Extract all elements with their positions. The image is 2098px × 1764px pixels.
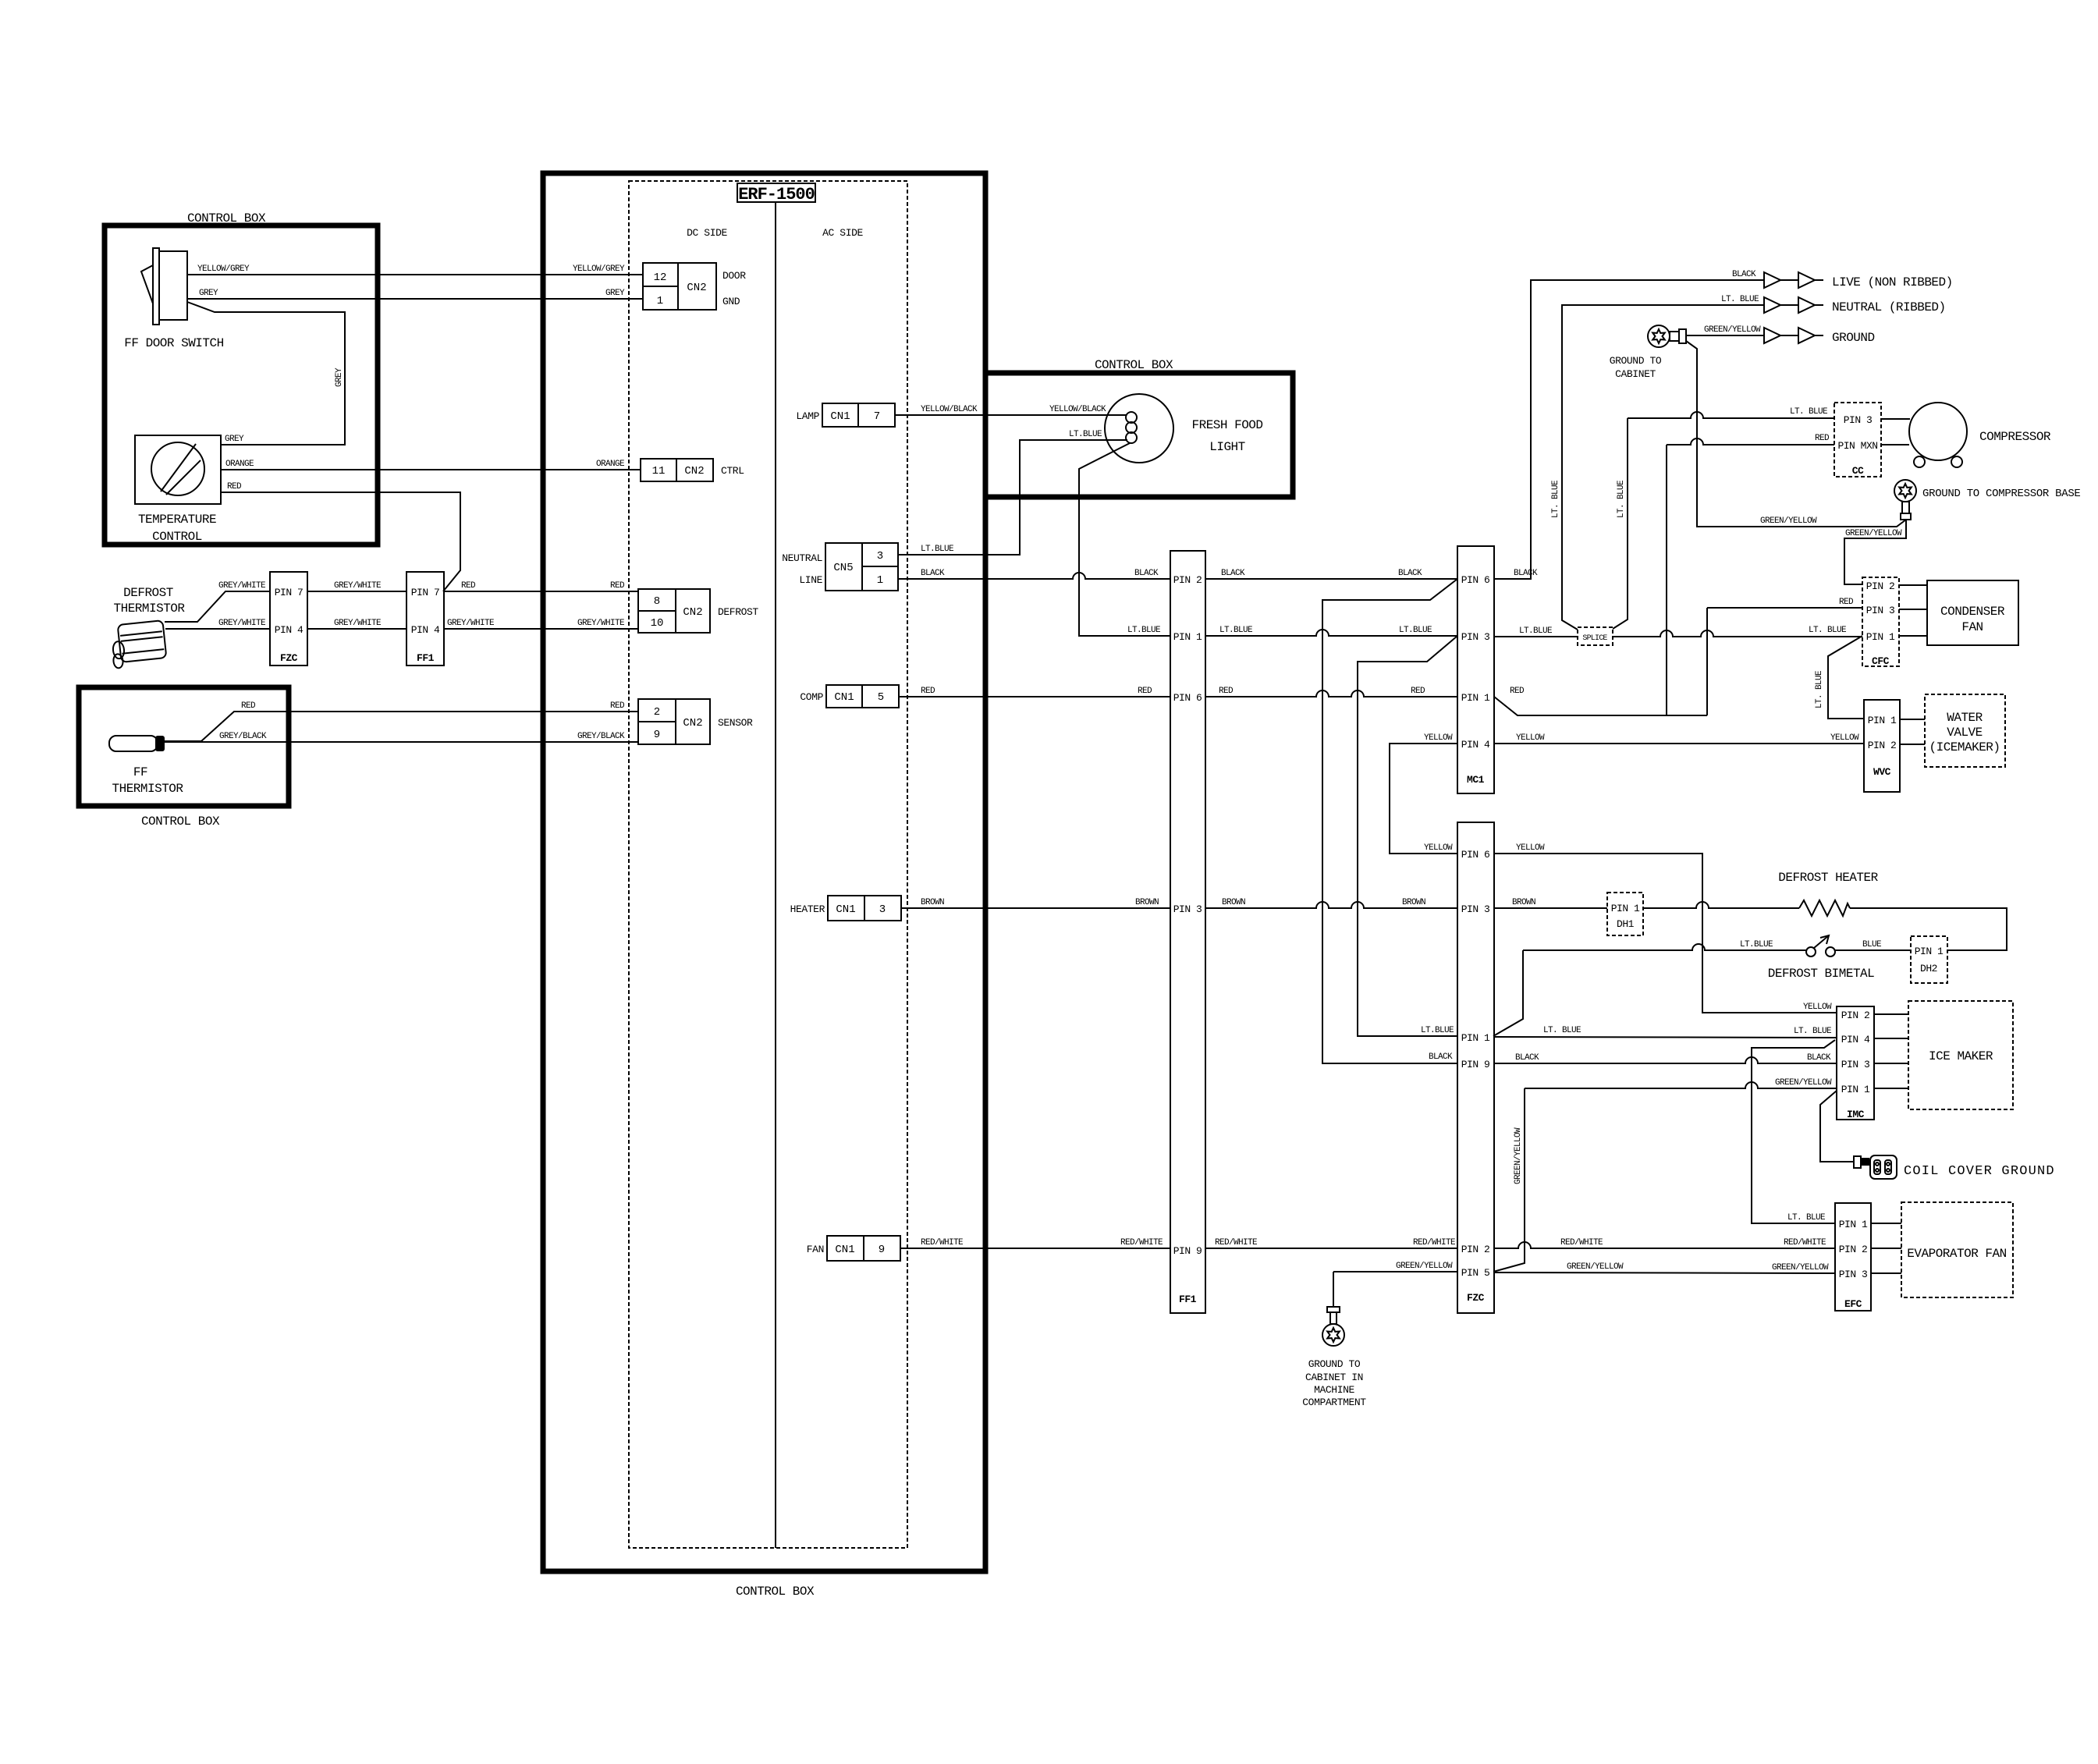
svg-text:RED: RED bbox=[1411, 687, 1425, 696]
wire LT.BLUE MC1 pin 3 to FZC pin 1 bbox=[1358, 636, 1457, 1036]
svg-text:PIN 9: PIN 9 bbox=[1461, 1059, 1490, 1070]
svg-text:BROWN: BROWN bbox=[1512, 898, 1535, 907]
connector FZC (main column) bbox=[1457, 822, 1494, 1313]
svg-text:LT. BLUE: LT. BLUE bbox=[1617, 480, 1626, 518]
defrost bimetal S1 bbox=[1768, 935, 1875, 981]
svg-text:MC1: MC1 bbox=[1467, 774, 1485, 786]
svg-text:GREY: GREY bbox=[199, 289, 218, 298]
water valve (icemaker) bbox=[1900, 694, 2005, 767]
svg-text:TEMPERATURE: TEMPERATURE bbox=[138, 513, 216, 527]
svg-text:WVC: WVC bbox=[1873, 766, 1891, 778]
svg-text:YELLOW: YELLOW bbox=[1424, 843, 1453, 853]
svg-text:PIN 1: PIN 1 bbox=[1461, 1032, 1490, 1044]
svg-text:BLACK: BLACK bbox=[1732, 270, 1756, 279]
compressor M1 bbox=[1881, 403, 2051, 467]
svg-text:CN2: CN2 bbox=[687, 282, 706, 294]
wire GREY/WHITE defrost thermistor to FZC pin 4 bbox=[165, 619, 270, 629]
control box (fresh food light) bbox=[985, 358, 1293, 497]
wire RED MC1 pin 1 to CFC pin 3 bbox=[1494, 598, 1862, 715]
terminal NEUTRAL (RIBBED) bbox=[1764, 297, 1946, 314]
svg-text:RED: RED bbox=[241, 701, 256, 711]
svg-text:LINE: LINE bbox=[799, 574, 822, 586]
svg-text:SENSOR: SENSOR bbox=[718, 717, 753, 729]
svg-text:DEFROST BIMETAL: DEFROST BIMETAL bbox=[1768, 967, 1875, 981]
title ERF-1500 bbox=[737, 183, 815, 204]
svg-text:3: 3 bbox=[879, 903, 886, 916]
svg-text:BLACK: BLACK bbox=[1429, 1052, 1453, 1062]
svg-text:GREY: GREY bbox=[335, 367, 344, 387]
svg-text:PIN 4: PIN 4 bbox=[275, 624, 304, 636]
svg-text:CN1: CN1 bbox=[834, 691, 854, 704]
svg-text:GND: GND bbox=[722, 296, 740, 307]
connector CFC (condenser fan) bbox=[1862, 577, 1899, 667]
svg-text:RED: RED bbox=[610, 701, 625, 711]
connector WVC (water valve) bbox=[1864, 700, 1900, 792]
wire RED/WHITE FF1 pin 9 to FZC pin 2 bbox=[1205, 1238, 1457, 1248]
control box (top-left) bbox=[105, 211, 378, 545]
svg-text:LT.BLUE: LT.BLUE bbox=[1127, 626, 1161, 635]
connector CN1 HEATER pin 3 bbox=[790, 896, 901, 921]
svg-text:RED/WHITE: RED/WHITE bbox=[1120, 1238, 1163, 1248]
svg-text:12: 12 bbox=[654, 272, 667, 284]
svg-text:COMPARTMENT: COMPARTMENT bbox=[1302, 1397, 1366, 1408]
svg-text:PIN 1: PIN 1 bbox=[1868, 715, 1897, 726]
svg-text:GREY: GREY bbox=[225, 435, 244, 444]
svg-text:MACHINE: MACHINE bbox=[1314, 1384, 1354, 1396]
wire BROWN FZC pin 3 to DH1 bbox=[1494, 898, 1607, 908]
wire LT.BLUE FZC pin 1 to IMC pin 4 bbox=[1493, 1026, 1837, 1038]
svg-text:YELLOW: YELLOW bbox=[1803, 1003, 1832, 1012]
wire BROWN CN1 heater to FF1 pin 3 bbox=[901, 898, 1170, 908]
svg-text:LT.BLUE: LT.BLUE bbox=[1399, 626, 1432, 635]
svg-text:PIN 6: PIN 6 bbox=[1173, 692, 1202, 704]
ERF-1500 board (dashed) bbox=[629, 181, 907, 1548]
wire YELLOW MC1 pin 4 to FZC pin 6 bbox=[1390, 733, 1457, 854]
connector CN1 FAN pin 9 bbox=[807, 1236, 900, 1261]
connector CN5 NEUTRAL LINE bbox=[782, 543, 898, 591]
svg-text:11: 11 bbox=[652, 465, 666, 477]
svg-text:CN2: CN2 bbox=[684, 465, 704, 477]
svg-text:7: 7 bbox=[874, 410, 880, 423]
svg-text:CONTROL BOX: CONTROL BOX bbox=[187, 211, 266, 225]
svg-text:GREEN/YELLOW: GREEN/YELLOW bbox=[1396, 1262, 1453, 1271]
wire YELLOW FZC pin 6 to IMC pin 2 bbox=[1494, 843, 1837, 1013]
wire GREY/BLACK FF thermistor to CN2 pin 9 bbox=[165, 732, 638, 742]
svg-text:DC SIDE: DC SIDE bbox=[687, 227, 727, 239]
svg-text:CFC: CFC bbox=[1872, 655, 1890, 667]
wire LT.BLUE IMC pin 4 to EFC pin 1 bbox=[1752, 1040, 1835, 1223]
svg-text:YELLOW: YELLOW bbox=[1424, 733, 1453, 743]
svg-text:DH2: DH2 bbox=[1920, 963, 1937, 974]
wire GREEN/YELLOW ground-to-cabinet to compressor base ground bbox=[1686, 341, 1906, 527]
wire LT.BLUE FF1 pin 1 to MC1 pin 3 bbox=[1205, 626, 1457, 636]
wire GREEN/YELLOW FZC pin 5 to IMC pin 1 bbox=[1493, 1078, 1837, 1272]
svg-text:GREY/WHITE: GREY/WHITE bbox=[334, 581, 382, 591]
svg-text:CN2: CN2 bbox=[683, 606, 702, 619]
svg-text:GREY/WHITE: GREY/WHITE bbox=[447, 619, 495, 628]
svg-text:RED/WHITE: RED/WHITE bbox=[1215, 1238, 1258, 1248]
wire GREY door switch to temperature control bbox=[187, 302, 345, 445]
svg-text:CABINET IN: CABINET IN bbox=[1305, 1372, 1363, 1383]
svg-text:WATER: WATER bbox=[1947, 711, 1983, 725]
svg-text:FZC: FZC bbox=[280, 652, 298, 664]
wire RED FF1 pin 7 to CN2 pin 8 bbox=[444, 581, 638, 591]
svg-text:PIN 1: PIN 1 bbox=[1915, 946, 1944, 957]
svg-text:PIN 2: PIN 2 bbox=[1461, 1244, 1490, 1255]
svg-text:CONTROL: CONTROL bbox=[152, 530, 202, 544]
svg-text:BLACK: BLACK bbox=[1514, 569, 1538, 578]
svg-text:BLACK: BLACK bbox=[1398, 569, 1422, 578]
svg-text:CONTROL BOX: CONTROL BOX bbox=[736, 1585, 815, 1599]
svg-text:3: 3 bbox=[877, 550, 883, 563]
svg-text:CN1: CN1 bbox=[836, 903, 855, 916]
svg-text:FF: FF bbox=[133, 765, 147, 779]
svg-text:COIL COVER GROUND: COIL COVER GROUND bbox=[1904, 1164, 2055, 1179]
connector CN2 DOOR/GND bbox=[643, 263, 746, 310]
wire RED MC1 pin 1 branch to CC pin MXN bbox=[1667, 434, 1834, 715]
svg-text:5: 5 bbox=[878, 691, 884, 704]
svg-text:CONTROL BOX: CONTROL BOX bbox=[141, 815, 220, 829]
connector CN2 CTRL bbox=[641, 459, 744, 481]
svg-text:DOOR: DOOR bbox=[722, 270, 746, 282]
svg-text:DEFROST HEATER: DEFROST HEATER bbox=[1778, 871, 1878, 885]
wire LT.BLUE fresh food light to FF1 pin 1 bbox=[1079, 443, 1170, 636]
wire RED CN1 comp to FF1 pin 6 bbox=[899, 687, 1170, 697]
ground to compressor base symbol bbox=[1894, 480, 2081, 520]
svg-text:GREEN/YELLOW: GREEN/YELLOW bbox=[1567, 1262, 1624, 1272]
svg-text:GROUND TO: GROUND TO bbox=[1308, 1358, 1361, 1370]
svg-text:COMPRESSOR: COMPRESSOR bbox=[1979, 430, 2051, 444]
svg-text:RED: RED bbox=[1815, 434, 1830, 443]
svg-text:9: 9 bbox=[654, 729, 660, 741]
condenser fan M2 bbox=[1899, 580, 2018, 645]
FF door switch SW1 bbox=[124, 248, 223, 350]
svg-text:YELLOW/GREY: YELLOW/GREY bbox=[197, 264, 250, 274]
ground to cabinet in machine compartment symbol bbox=[1302, 1307, 1366, 1408]
svg-text:PIN 5: PIN 5 bbox=[1461, 1267, 1490, 1279]
wire GREEN/YELLOW FZC pin 5 to EFC pin 3 bbox=[1493, 1262, 1835, 1273]
connector MC1 bbox=[1457, 546, 1494, 793]
svg-text:SPLICE: SPLICE bbox=[1582, 634, 1607, 643]
wire RED temperature control to FF1 pin 7 bbox=[221, 482, 460, 591]
svg-text:PIN 2: PIN 2 bbox=[1839, 1244, 1868, 1255]
svg-text:LIGHT: LIGHT bbox=[1209, 440, 1245, 454]
svg-text:PIN 2: PIN 2 bbox=[1173, 574, 1202, 586]
svg-text:1: 1 bbox=[657, 295, 663, 307]
svg-text:VALVE: VALVE bbox=[1947, 726, 1983, 740]
svg-text:ORANGE: ORANGE bbox=[225, 460, 254, 469]
svg-text:CN5: CN5 bbox=[833, 562, 853, 574]
wire GREY door switch to CN2 pin 1 bbox=[187, 289, 643, 299]
svg-text:FAN: FAN bbox=[1961, 620, 1983, 634]
wire LT.BLUE FZC pin 1 to defrost bimetal bbox=[1493, 940, 1806, 1036]
svg-text:YELLOW/GREY: YELLOW/GREY bbox=[573, 264, 625, 274]
svg-text:BLACK: BLACK bbox=[1221, 569, 1245, 578]
FF thermistor RT3 bbox=[109, 736, 183, 796]
svg-text:AC SIDE: AC SIDE bbox=[822, 227, 863, 239]
ice maker bbox=[1874, 1001, 2013, 1109]
svg-text:LT. BLUE: LT. BLUE bbox=[1721, 295, 1759, 304]
svg-text:CN1: CN1 bbox=[835, 1244, 854, 1256]
control box (FF thermistor) bbox=[79, 687, 289, 829]
wire YELLOW MC1 pin 4 to WVC pin 2 bbox=[1494, 733, 1864, 744]
svg-text:RED: RED bbox=[461, 581, 476, 591]
svg-text:FZC: FZC bbox=[1467, 1292, 1485, 1304]
evaporator fan M3 bbox=[1871, 1202, 2013, 1297]
wire RED FF thermistor to CN2 pin 2 bbox=[165, 701, 638, 741]
svg-text:DEFROST: DEFROST bbox=[123, 586, 173, 600]
svg-text:LIVE (NON RIBBED): LIVE (NON RIBBED) bbox=[1832, 275, 1953, 289]
svg-text:YELLOW: YELLOW bbox=[1516, 733, 1545, 743]
svg-text:BROWN: BROWN bbox=[1135, 898, 1159, 907]
wire BLACK MC1 pin 6 to live terminal bbox=[1494, 270, 1764, 579]
svg-text:GREEN/YELLOW: GREEN/YELLOW bbox=[1704, 325, 1761, 335]
svg-text:DEFROST: DEFROST bbox=[718, 606, 758, 618]
splice bbox=[1578, 627, 1613, 645]
svg-text:RED/WHITE: RED/WHITE bbox=[921, 1238, 964, 1248]
svg-text:GREY/WHITE: GREY/WHITE bbox=[334, 619, 382, 628]
svg-text:GREY/WHITE: GREY/WHITE bbox=[577, 619, 625, 628]
wire BLACK FZC pin 9 to IMC pin 3 bbox=[1493, 1053, 1837, 1063]
svg-text:PIN 1: PIN 1 bbox=[1839, 1219, 1868, 1230]
svg-text:RED/WHITE: RED/WHITE bbox=[1784, 1238, 1826, 1248]
svg-text:PIN 3: PIN 3 bbox=[1839, 1269, 1868, 1280]
wire BLACK CN5 pin 1 to FF1 pin 2 bbox=[898, 569, 1170, 579]
svg-text:LT.BLUE: LT.BLUE bbox=[1519, 626, 1553, 636]
svg-text:GREEN/YELLOW: GREEN/YELLOW bbox=[1775, 1078, 1832, 1088]
wire RED/WHITE FZC pin 2 to EFC pin 2 bbox=[1493, 1238, 1835, 1248]
svg-text:GREY/BLACK: GREY/BLACK bbox=[219, 732, 267, 741]
svg-text:THERMISTOR: THERMISTOR bbox=[113, 602, 185, 616]
terminal GROUND bbox=[1764, 328, 1875, 345]
svg-text:GREY/WHITE: GREY/WHITE bbox=[218, 619, 266, 628]
svg-text:ORANGE: ORANGE bbox=[596, 460, 625, 469]
svg-text:FF1: FF1 bbox=[1179, 1294, 1197, 1305]
svg-text:CONDENSER: CONDENSER bbox=[1940, 605, 2005, 619]
svg-text:FF1: FF1 bbox=[417, 652, 435, 664]
svg-text:CTRL: CTRL bbox=[721, 465, 744, 477]
svg-text:RED/WHITE: RED/WHITE bbox=[1560, 1238, 1603, 1248]
wire YELLOW/GREY door switch to CN2 pin 12 bbox=[187, 264, 643, 275]
connector CN1 LAMP pin 7 bbox=[796, 403, 895, 427]
svg-text:PIN MXN: PIN MXN bbox=[1837, 440, 1877, 452]
connector CN1 COMP pin 5 bbox=[800, 685, 899, 708]
svg-text:PIN 9: PIN 9 bbox=[1173, 1245, 1202, 1257]
wire GREEN/YELLOW IMC pin 1 to coil cover ground bbox=[1820, 1091, 1854, 1162]
connector FF1 (defrost thermistor side) bbox=[406, 572, 444, 665]
svg-text:BLACK: BLACK bbox=[921, 569, 945, 578]
svg-text:GROUND TO: GROUND TO bbox=[1610, 355, 1662, 367]
wire GREEN/YELLOW ground-to-cabinet to ground terminal bbox=[1686, 325, 1764, 335]
svg-text:YELLOW: YELLOW bbox=[1516, 843, 1545, 853]
svg-text:GREEN/YELLOW: GREEN/YELLOW bbox=[1772, 1263, 1829, 1272]
svg-text:PIN 3: PIN 3 bbox=[1866, 605, 1895, 616]
ground to cabinet symbol bbox=[1610, 325, 1686, 380]
svg-text:RED: RED bbox=[1510, 687, 1525, 696]
svg-text:BROWN: BROWN bbox=[1222, 898, 1245, 907]
svg-text:PIN 4: PIN 4 bbox=[1461, 739, 1490, 751]
svg-text:CONTROL BOX: CONTROL BOX bbox=[1095, 358, 1173, 372]
svg-text:GREEN/YELLOW: GREEN/YELLOW bbox=[1845, 529, 1902, 538]
svg-text:PIN 3: PIN 3 bbox=[1841, 1059, 1870, 1070]
svg-text:PIN 2: PIN 2 bbox=[1841, 1010, 1870, 1021]
wire LT.BLUE CFC pin 1 to WVC pin 1 bbox=[1815, 636, 1864, 719]
svg-text:8: 8 bbox=[654, 595, 660, 608]
connector CN2 SENSOR bbox=[638, 699, 753, 744]
svg-text:PIN 3: PIN 3 bbox=[1461, 631, 1490, 643]
wire BLACK MC1 pin 6 to FZC pin 9 bbox=[1322, 579, 1457, 1063]
main control box bbox=[543, 173, 985, 1599]
svg-text:LT. BLUE: LT. BLUE bbox=[1551, 480, 1560, 518]
svg-text:2: 2 bbox=[654, 706, 660, 719]
svg-text:9: 9 bbox=[879, 1244, 885, 1256]
svg-text:EFC: EFC bbox=[1844, 1298, 1862, 1310]
wire GREY/WHITE FF1 pin 4 to CN2 pin 10 bbox=[444, 619, 638, 629]
svg-text:GREEN/YELLOW: GREEN/YELLOW bbox=[1514, 1127, 1523, 1184]
connector CC (compressor) bbox=[1834, 403, 1881, 477]
svg-text:FRESH FOOD: FRESH FOOD bbox=[1191, 418, 1262, 432]
svg-text:PIN 3: PIN 3 bbox=[1461, 903, 1490, 915]
wire GREY/WHITE defrost thermistor to FZC pin 7 bbox=[165, 581, 270, 622]
svg-text:FF DOOR SWITCH: FF DOOR SWITCH bbox=[124, 336, 223, 350]
svg-text:CABINET: CABINET bbox=[1615, 368, 1656, 380]
wire BLUE defrost bimetal to DH2 bbox=[1835, 940, 1911, 950]
svg-text:BROWN: BROWN bbox=[1402, 898, 1425, 907]
fresh food light LP1 bbox=[1105, 394, 1263, 463]
svg-text:CN2: CN2 bbox=[683, 717, 702, 729]
svg-text:RED: RED bbox=[1839, 598, 1854, 607]
svg-text:PIN 1: PIN 1 bbox=[1866, 631, 1895, 643]
svg-text:CN1: CN1 bbox=[830, 410, 850, 423]
svg-text:10: 10 bbox=[651, 617, 664, 630]
svg-text:BLACK: BLACK bbox=[1515, 1053, 1539, 1063]
svg-text:PIN 6: PIN 6 bbox=[1461, 849, 1490, 861]
svg-text:HEATER: HEATER bbox=[790, 903, 825, 915]
svg-text:PIN 1: PIN 1 bbox=[1841, 1084, 1870, 1095]
svg-text:PIN 4: PIN 4 bbox=[1841, 1034, 1870, 1045]
svg-text:PIN 1: PIN 1 bbox=[1461, 692, 1490, 704]
svg-text:LT. BLUE: LT. BLUE bbox=[1809, 626, 1847, 635]
connector EFC (evaporator fan) bbox=[1835, 1203, 1871, 1311]
svg-text:GREY: GREY bbox=[605, 289, 625, 298]
svg-text:RED: RED bbox=[227, 482, 242, 492]
svg-text:ICE MAKER: ICE MAKER bbox=[1929, 1049, 1993, 1063]
defrost heater R1 bbox=[1643, 871, 2007, 950]
wire GREEN/YELLOW compressor base ground to CFC pin 2 bbox=[1844, 520, 1906, 584]
svg-text:GREY/WHITE: GREY/WHITE bbox=[218, 581, 266, 591]
wire GREY/WHITE FZC pin 7 to FF1 pin 7 bbox=[307, 581, 406, 591]
svg-text:LAMP: LAMP bbox=[796, 410, 819, 422]
temperature control RT1 bbox=[135, 435, 221, 544]
svg-text:PIN 3: PIN 3 bbox=[1844, 414, 1873, 426]
wire RED FF1 pin 6 to MC1 pin 1 bbox=[1205, 687, 1457, 697]
svg-text:GROUND TO COMPRESSOR BASE: GROUND TO COMPRESSOR BASE bbox=[1922, 488, 2081, 500]
connector FF1 (main column) bbox=[1170, 551, 1205, 1313]
svg-text:IMC: IMC bbox=[1847, 1109, 1865, 1120]
svg-text:PIN 6: PIN 6 bbox=[1461, 574, 1490, 586]
svg-text:NEUTRAL: NEUTRAL bbox=[782, 552, 822, 564]
svg-text:YELLOW: YELLOW bbox=[1830, 733, 1859, 743]
svg-text:GREY/BLACK: GREY/BLACK bbox=[577, 732, 625, 741]
coil cover ground symbol bbox=[1854, 1155, 2055, 1179]
connector FZC (defrost thermistor side) bbox=[270, 572, 307, 665]
svg-text:BLACK: BLACK bbox=[1807, 1053, 1831, 1063]
svg-text:GROUND: GROUND bbox=[1832, 331, 1875, 345]
svg-text:CC: CC bbox=[1852, 465, 1864, 477]
svg-text:ERF-1500: ERF-1500 bbox=[738, 185, 815, 204]
svg-text:LT.BLUE: LT.BLUE bbox=[1740, 940, 1773, 949]
svg-text:THERMISTOR: THERMISTOR bbox=[112, 782, 183, 796]
svg-text:PIN 1: PIN 1 bbox=[1611, 903, 1640, 914]
svg-text:FAN: FAN bbox=[807, 1244, 824, 1255]
svg-text:YELLOW/BLACK: YELLOW/BLACK bbox=[921, 405, 978, 414]
svg-text:PIN 3: PIN 3 bbox=[1173, 903, 1202, 915]
connector CN2 DEFROST bbox=[638, 589, 758, 633]
svg-text:PIN 4: PIN 4 bbox=[411, 624, 440, 636]
wire BROWN FF1 pin 3 to FZC pin 3 bbox=[1205, 898, 1457, 908]
svg-text:RED: RED bbox=[1138, 687, 1152, 696]
wire LT.BLUE splice to CC pin 3 bbox=[1613, 407, 1834, 629]
wire BLACK FF1 pin 2 to MC1 pin 6 bbox=[1205, 569, 1457, 579]
svg-text:RED: RED bbox=[610, 581, 625, 591]
svg-text:RED/WHITE: RED/WHITE bbox=[1413, 1238, 1456, 1248]
svg-text:PIN 1: PIN 1 bbox=[1173, 631, 1202, 643]
svg-text:PIN 7: PIN 7 bbox=[275, 587, 304, 598]
svg-text:PIN 2: PIN 2 bbox=[1866, 580, 1895, 592]
svg-text:DH1: DH1 bbox=[1617, 918, 1635, 930]
svg-text:RED: RED bbox=[1219, 687, 1234, 696]
svg-text:COMP: COMP bbox=[800, 691, 823, 703]
wire LT.BLUE fresh food light to CN5 pin 3 bbox=[898, 430, 1127, 555]
wire RED/WHITE CN1 fan to FF1 pin 9 bbox=[900, 1238, 1170, 1248]
connector DH1 pin 1 (defrost heater) bbox=[1607, 893, 1643, 935]
svg-text:RED: RED bbox=[921, 687, 935, 696]
svg-text:LT. BLUE: LT. BLUE bbox=[1794, 1027, 1832, 1036]
wire GREY/WHITE FZC pin 4 to FF1 pin 4 bbox=[307, 619, 406, 629]
wire YELLOW/BLACK CN1 lamp to fresh food light bbox=[895, 405, 1126, 415]
wire GREEN/YELLOW FZC pin 5 to machine compartment ground bbox=[1333, 1262, 1457, 1307]
svg-text:PIN 2: PIN 2 bbox=[1868, 740, 1897, 751]
svg-text:YELLOW/BLACK: YELLOW/BLACK bbox=[1049, 405, 1106, 414]
svg-text:LT. BLUE: LT. BLUE bbox=[1787, 1213, 1826, 1223]
wire ORANGE temperature control to CN2 pin 11 bbox=[221, 460, 641, 470]
svg-text:LT.BLUE: LT.BLUE bbox=[1219, 626, 1253, 635]
wire LT.BLUE MC1 pin 3 to splice to CFC pin 1 bbox=[1494, 626, 1862, 637]
svg-text:EVAPORATOR FAN: EVAPORATOR FAN bbox=[1907, 1247, 2006, 1261]
connector DH2 pin 1 (defrost heater) bbox=[1911, 936, 1947, 983]
connector IMC (ice maker) bbox=[1837, 1006, 1874, 1120]
svg-text:PIN 7: PIN 7 bbox=[411, 587, 440, 598]
svg-text:GREEN/YELLOW: GREEN/YELLOW bbox=[1760, 516, 1817, 526]
svg-text:BLUE: BLUE bbox=[1862, 940, 1882, 949]
svg-text:LT.BLUE: LT.BLUE bbox=[1421, 1026, 1454, 1035]
defrost thermistor RT2 bbox=[110, 586, 186, 669]
terminal LIVE (NON RIBBED) bbox=[1764, 272, 1953, 289]
svg-text:LT. BLUE: LT. BLUE bbox=[1815, 670, 1824, 708]
svg-text:LT.BLUE: LT.BLUE bbox=[921, 545, 954, 554]
svg-text:BLACK: BLACK bbox=[1134, 569, 1159, 578]
svg-text:LT.BLUE: LT.BLUE bbox=[1069, 430, 1102, 439]
svg-text:BROWN: BROWN bbox=[921, 898, 944, 907]
svg-text:LT. BLUE: LT. BLUE bbox=[1790, 407, 1828, 417]
svg-text:1: 1 bbox=[877, 574, 883, 587]
wire LT.BLUE splice to neutral terminal bbox=[1551, 295, 1764, 630]
svg-text:(ICEMAKER): (ICEMAKER) bbox=[1929, 740, 2000, 754]
svg-text:NEUTRAL (RIBBED): NEUTRAL (RIBBED) bbox=[1832, 300, 1946, 314]
svg-text:LT. BLUE: LT. BLUE bbox=[1543, 1026, 1581, 1035]
